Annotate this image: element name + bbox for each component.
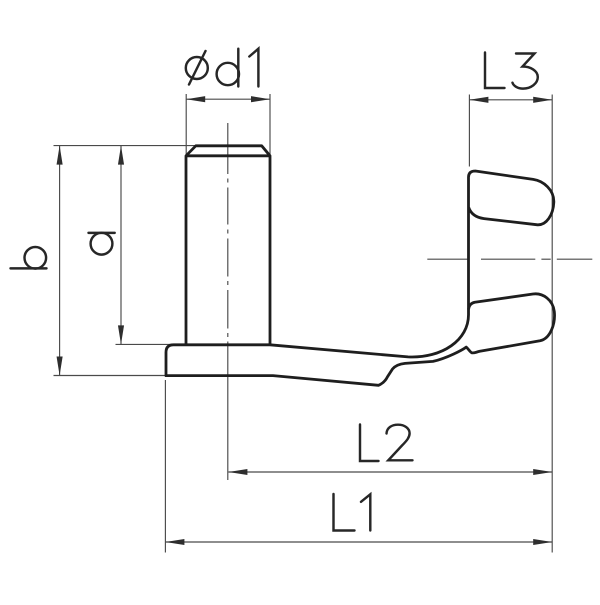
dimension line b	[59, 146, 61, 376]
label L2 text	[360, 425, 413, 462]
dimension line a	[120, 146, 122, 345]
label b text (rotated)	[11, 247, 47, 269]
extension line od1 left	[185, 94, 187, 155]
label L3 text	[485, 53, 538, 89]
arrowhead L1 right	[533, 539, 552, 545]
extension line od1 right	[269, 94, 271, 155]
arrowhead L1 left	[165, 539, 184, 545]
arrowhead b top	[57, 146, 63, 165]
label a text (rotated)	[89, 233, 115, 255]
arrowhead L3 right	[533, 97, 552, 103]
extension line right shared L3/L2/L1	[551, 95, 553, 553]
arrowhead a bottom	[118, 325, 124, 344]
arrowhead a top	[118, 146, 124, 165]
dimension line L1	[165, 541, 552, 543]
dimension line L3	[469, 99, 552, 101]
arrowhead L2 left	[228, 469, 247, 475]
label L1 text	[334, 494, 371, 531]
centerline pin vertical (dash-dot)	[227, 123, 229, 480]
centerline hook horizontal (dash-dot)	[427, 258, 592, 260]
label od1 text	[186, 49, 259, 87]
dimension line L2	[228, 471, 552, 473]
extension line L3 left	[468, 95, 470, 167]
arm top outline + hook left edge + top lobe	[166, 171, 554, 376]
arrowhead L2 right	[533, 469, 552, 475]
arrowhead L3 left	[469, 97, 488, 103]
extension line top-left (y=145.6)	[54, 145, 197, 147]
dimension line od1	[186, 98, 270, 100]
arrowhead od1 left	[186, 96, 205, 102]
pin outline with chamfer	[186, 146, 270, 346]
extension line L1 left	[164, 380, 166, 553]
extension line a-bottom (y=344.4)	[116, 343, 173, 345]
extension line b-bottom (y=375.5)	[54, 375, 167, 377]
arrowhead od1 right	[251, 96, 270, 102]
arrowhead b bottom	[57, 357, 63, 376]
bottom lobe + arm bottom outline	[166, 294, 554, 385]
